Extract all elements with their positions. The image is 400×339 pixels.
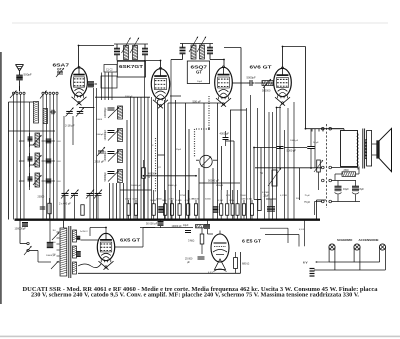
value label 25&#956;F xyxy=(264,195,270,198)
connector terminal pair xyxy=(322,179,332,182)
value label 0,1 M&#937; xyxy=(280,195,287,197)
svg-text:75 pF: 75 pF xyxy=(305,195,311,197)
svg-text:0,1M: 0,1M xyxy=(133,199,138,201)
wire shielded lead oscillator (dotted) xyxy=(155,138,157,192)
wire xyxy=(167,103,169,220)
caption line 2 xyxy=(31,293,360,299)
value label 160 xyxy=(52,242,55,244)
value label 8&#956;F xyxy=(360,188,365,191)
wire V4 plate to output transformer xyxy=(283,47,345,129)
wire V3 grid-cap loop xyxy=(224,48,241,220)
svg-text:10000: 10000 xyxy=(240,195,247,197)
wire xyxy=(104,73,106,101)
value label &#937; xyxy=(148,176,150,179)
capacitor 50000pF below bus xyxy=(185,231,191,233)
coil with trimmer 1000pF group xyxy=(28,133,42,147)
wire V1 plate to MF1 xyxy=(79,45,115,47)
wire bundle xyxy=(151,97,153,220)
value label 300 xyxy=(296,198,300,200)
value label TA xyxy=(260,171,263,175)
padder capacitor+coil 50000pF xyxy=(104,170,123,183)
wire xyxy=(299,168,301,200)
wire xyxy=(203,103,205,220)
wire xyxy=(164,100,166,220)
value label 2-18 xyxy=(57,181,62,183)
wire OT bottom to terminals xyxy=(332,168,359,170)
svg-text:2-18 pF: 2-18 pF xyxy=(65,124,75,128)
pilot lamp 2 xyxy=(354,244,360,270)
potentiometer sensitivity xyxy=(314,160,323,190)
value label 500000 xyxy=(262,90,271,93)
capacitor 10uF below bus xyxy=(158,220,164,228)
wire bus right drop xyxy=(317,200,327,220)
resistor 0,5M xyxy=(242,200,245,220)
value label 1 M&#937; xyxy=(247,199,252,201)
value label 75 pF xyxy=(305,195,311,197)
value label 680 &#937; xyxy=(242,262,249,266)
value label 100000pF xyxy=(15,228,27,231)
wire bundle xyxy=(272,112,274,220)
terminal blobs T1 secondary xyxy=(76,236,81,256)
value label 5000 pF xyxy=(287,149,297,153)
trimmer capacitor 2-18pF a xyxy=(66,108,74,117)
wire xyxy=(112,183,114,220)
tube V5 label 6X5 GT xyxy=(120,238,140,243)
wire lamp return bus xyxy=(314,269,385,271)
value label 1 M&#937; xyxy=(169,199,175,201)
wire bundle xyxy=(140,97,142,220)
wire xyxy=(63,116,65,220)
wire xyxy=(79,107,95,109)
value label 175&#937; xyxy=(180,195,185,197)
svg-text:2x350 V: 2x350 V xyxy=(80,231,88,233)
wire lamp bus 6V xyxy=(316,261,380,263)
svg-text:10μF: 10μF xyxy=(197,81,203,83)
value label 1000 xyxy=(19,159,25,163)
value label 6,3 V xyxy=(208,272,213,274)
wire xyxy=(116,183,118,220)
wire terminal row 201 xyxy=(332,201,361,203)
component box below xyxy=(101,76,117,88)
value label 4,5 &#937; xyxy=(299,229,304,231)
wire xyxy=(198,168,200,220)
coil L2 antenna xyxy=(43,109,47,124)
wire xyxy=(322,129,324,132)
value label 0,5M xyxy=(185,200,190,202)
wire left rail xyxy=(8,102,10,220)
wire xyxy=(30,164,36,166)
value label 5000&#956;F xyxy=(216,185,224,187)
capacitor 5000pF tone xyxy=(276,106,284,170)
value label 110 xyxy=(52,230,55,232)
value label 20000 xyxy=(38,196,45,199)
wire xyxy=(175,100,177,220)
tube V3 6SQ7GT xyxy=(215,67,233,106)
pilot lamp 1 xyxy=(329,244,335,270)
switch S2 wave-change xyxy=(40,91,58,220)
svg-text:100000pF: 100000pF xyxy=(104,107,107,118)
svg-text:3 MΩ: 3 MΩ xyxy=(188,239,194,243)
wire shielded volume link (dotted) xyxy=(195,96,210,157)
value label 10000 xyxy=(96,119,103,121)
wire xyxy=(170,60,172,98)
wire xyxy=(140,227,193,229)
connector terminal pair xyxy=(322,127,332,130)
svg-text:20000: 20000 xyxy=(125,199,132,201)
power transformer T1 xyxy=(57,226,77,278)
resistor 1 M&#937; xyxy=(170,200,173,220)
potentiometer tone control xyxy=(268,168,281,186)
value label 2x350 V xyxy=(80,231,88,233)
wire xyxy=(255,167,322,169)
wire bundle xyxy=(264,87,266,220)
wire xyxy=(119,183,121,220)
svg-text:100000pF: 100000pF xyxy=(104,150,107,161)
tuning gang capacitor 2x440pF section a xyxy=(61,190,79,220)
capacitor 5000pF coupling xyxy=(248,80,255,86)
value label 10000 pF xyxy=(172,225,183,228)
svg-text:175Ω: 175Ω xyxy=(180,195,185,197)
wire xyxy=(146,175,196,177)
value label C2 xyxy=(158,167,162,169)
value label 50000 pF xyxy=(208,179,219,183)
svg-text:C1 C2: C1 C2 xyxy=(106,69,113,71)
svg-text:25μF: 25μF xyxy=(176,149,182,151)
capacitor 25000pF magic eye xyxy=(198,257,205,259)
wire xyxy=(9,130,56,132)
wire V4 cathode xyxy=(276,108,278,220)
svg-text:680 Ω: 680 Ω xyxy=(242,262,249,266)
svg-text:50000: 50000 xyxy=(156,199,163,201)
svg-text:1 MΩ: 1 MΩ xyxy=(169,199,175,201)
value label 50000 xyxy=(156,199,163,201)
value label 2-18 xyxy=(57,161,62,163)
capacitor 4000pF xyxy=(223,131,229,146)
svg-text:100000pF: 100000pF xyxy=(104,129,107,140)
value label 0,25 xyxy=(226,195,231,197)
svg-text:10000 pF: 10000 pF xyxy=(168,185,178,187)
svg-text:10μF: 10μF xyxy=(183,224,189,227)
value label 3000pF xyxy=(125,96,133,98)
tube V1 label 6SA7 xyxy=(53,63,70,72)
svg-text:TA: TA xyxy=(260,171,263,175)
wire bundle xyxy=(144,60,146,220)
capacitor input coupling xyxy=(50,110,56,115)
value label 500 pF xyxy=(193,100,202,104)
wire xyxy=(188,129,190,220)
value label 1M&#937; xyxy=(162,200,167,202)
svg-text:8μF: 8μF xyxy=(360,188,365,191)
wire T1 primary to bus xyxy=(63,220,65,228)
value label 50000 xyxy=(205,199,212,201)
value label 20000 xyxy=(125,199,132,201)
wire T1 mains xyxy=(49,220,51,242)
svg-text:6 E5 GT: 6 E5 GT xyxy=(242,239,261,244)
svg-text:2 x 440 pF: 2 x 440 pF xyxy=(59,203,71,206)
wire V3 plate riser xyxy=(223,60,225,68)
wire xyxy=(9,101,34,103)
value label 500pF xyxy=(24,73,32,77)
wire bundle xyxy=(246,108,248,220)
tube V5 6X5GT rectifier xyxy=(97,233,114,269)
capacitor 100000pF mains xyxy=(22,223,28,227)
value label 10000 pF xyxy=(168,185,178,187)
svg-text:3000pF: 3000pF xyxy=(125,96,133,98)
wire xyxy=(254,147,276,149)
capacitor electrolytic 8uF xyxy=(352,181,359,202)
resistor cathode bias xyxy=(258,200,261,211)
svg-text:Ω: Ω xyxy=(148,176,150,179)
capacitor AVC xyxy=(40,207,46,209)
wire xyxy=(123,183,125,220)
tube top cap terminals xyxy=(78,66,284,69)
capacitor trimmer padding xyxy=(42,159,56,163)
output transformer T2 xyxy=(341,129,372,169)
potentiometer volume 1 Mohm xyxy=(200,155,212,167)
capacitor mica row a xyxy=(158,207,164,212)
trimmer capacitor 2-18pF b xyxy=(76,108,84,117)
capacitor 500pF antenna xyxy=(16,75,23,91)
value label 2 x 440 pF xyxy=(59,203,71,206)
svg-text:50000pF: 50000pF xyxy=(104,172,107,182)
wire xyxy=(277,107,282,109)
svg-text:6SK7GT: 6SK7GT xyxy=(119,64,144,69)
svg-text:1000μF: 1000μF xyxy=(96,134,104,136)
value label 2-18 xyxy=(57,141,62,143)
tube V2 label 6SK7GT xyxy=(119,64,144,69)
svg-text:1000 pF: 1000 pF xyxy=(290,140,299,142)
svg-text:5000μF: 5000μF xyxy=(216,185,224,187)
component box C1 xyxy=(104,65,117,73)
value label 1000 xyxy=(19,179,25,183)
wire V2 plate riser xyxy=(160,61,162,69)
connector terminal pair xyxy=(322,200,332,203)
wire xyxy=(226,140,234,142)
svg-text:0,3M: 0,3M xyxy=(229,200,234,202)
svg-text:5000pF: 5000pF xyxy=(247,76,256,80)
capacitor 10000pF eye grid xyxy=(204,225,210,229)
ground battery symbol xyxy=(310,269,315,277)
IF transformer MF1 xyxy=(114,38,161,61)
IF can shield box MF1 xyxy=(117,61,145,77)
value label 5000pF xyxy=(247,76,256,80)
wire xyxy=(260,148,262,200)
svg-text:10000 pF: 10000 pF xyxy=(46,255,56,257)
svg-text:GT: GT xyxy=(196,69,202,74)
pilot lamp 3 xyxy=(379,244,385,270)
resistor 680 ohm xyxy=(234,252,238,273)
wire xyxy=(157,100,159,220)
wire xyxy=(158,154,165,156)
label 6 V xyxy=(303,261,308,265)
antenna xyxy=(16,65,24,76)
value label 0,1M xyxy=(218,200,223,202)
wire xyxy=(318,129,320,132)
wire xyxy=(217,103,219,220)
wire below-bus links xyxy=(260,220,305,247)
value label 50000 xyxy=(150,200,157,202)
resistor 0,1M xyxy=(134,200,137,220)
trimmer capacitor 2-18pF c xyxy=(97,147,105,156)
value label 220 xyxy=(52,254,55,256)
wire xyxy=(185,103,187,220)
resistor 80k xyxy=(81,205,84,216)
IF can shield box MF2 xyxy=(187,61,209,84)
svg-text:0,5M: 0,5M xyxy=(241,199,246,201)
wire xyxy=(101,73,103,101)
value label &#956;F xyxy=(187,261,190,264)
svg-text:0,1 MΩ: 0,1 MΩ xyxy=(280,195,287,197)
wire xyxy=(120,189,152,191)
wire bundle xyxy=(287,108,289,220)
magic eye target display xyxy=(214,259,227,272)
wire xyxy=(168,102,224,104)
svg-text:0,1M: 0,1M xyxy=(218,200,223,202)
tube V3 label 6SQ7 GT xyxy=(191,65,208,75)
svg-text:0,1M: 0,1M xyxy=(189,199,194,201)
wire xyxy=(255,82,273,84)
resistor 400000 ohm xyxy=(142,160,146,220)
wire V1 plate riser xyxy=(78,46,80,69)
wire xyxy=(30,144,36,146)
svg-text:5 MΩ: 5 MΩ xyxy=(176,200,182,202)
svg-text:ACCENSIONE: ACCENSIONE xyxy=(359,238,379,242)
svg-text:160: 160 xyxy=(52,242,55,244)
wire bundle xyxy=(268,112,270,220)
svg-text:5000 pF: 5000 pF xyxy=(287,149,297,153)
resistor 0,1M xyxy=(220,190,223,220)
wire xyxy=(254,199,261,201)
caption line 1 xyxy=(23,287,378,293)
value label 2-18 pF xyxy=(65,124,75,128)
capacitor mains filter xyxy=(47,242,54,247)
coil L1 antenna 500/1500 xyxy=(34,102,39,124)
value label 400000 xyxy=(148,173,157,176)
wire xyxy=(311,129,313,132)
tube V4 label 6V6 GT xyxy=(250,65,272,70)
wire xyxy=(170,97,172,220)
wire V5 cathode to filter xyxy=(115,228,156,248)
svg-text:1000: 1000 xyxy=(19,179,25,183)
coil with trimmer 1000pF group xyxy=(28,173,42,187)
svg-text:10 μF: 10 μF xyxy=(313,142,319,144)
resistor divider xyxy=(250,200,253,220)
wire xyxy=(29,102,31,190)
wire bundle xyxy=(147,97,149,220)
value label C xyxy=(152,145,154,147)
wire speaker feed top xyxy=(332,129,345,131)
value label 2500 xyxy=(344,170,350,172)
svg-text:10000: 10000 xyxy=(96,119,103,121)
capacitor electrolytic 25uF cathode xyxy=(266,199,276,211)
value label 50 000 pF xyxy=(146,223,158,226)
resistor 0,3M xyxy=(231,190,234,220)
wire xyxy=(95,83,98,85)
potentiometer hum xyxy=(196,225,204,228)
wire xyxy=(72,116,74,145)
svg-text:230 V, schermo 240 V, catodo 9: 230 V, schermo 240 V, catodo 9,5 V. Conv… xyxy=(31,293,360,299)
value label 0,1M xyxy=(189,199,194,201)
padder capacitor+coil 100000pF xyxy=(104,150,123,163)
chassis ground bus xyxy=(15,219,321,221)
value label 75 pF xyxy=(304,201,311,204)
svg-text:500pF: 500pF xyxy=(24,73,32,77)
wire xyxy=(126,120,128,220)
wire xyxy=(232,82,248,84)
value label 16&#956;F xyxy=(343,188,349,191)
wire screen B+ riser xyxy=(293,102,295,220)
tube V1 6SA7 xyxy=(71,68,88,106)
capacitor trimmer padding xyxy=(42,139,56,143)
capacitor electrolytic 16uF xyxy=(335,181,342,202)
wire xyxy=(199,182,240,184)
speaker connector dashed separation xyxy=(326,124,328,208)
value label 1000 xyxy=(19,139,25,143)
resistor 0,5M xyxy=(187,190,190,220)
wire xyxy=(212,168,214,220)
trimmer capacitor V1 grid xyxy=(56,68,64,77)
svg-text:6,3 V: 6,3 V xyxy=(208,272,213,274)
value label 0,3M xyxy=(229,200,234,202)
svg-text:1000: 1000 xyxy=(19,159,25,163)
wire xyxy=(96,88,98,220)
tube V6 6E5 magic eye xyxy=(211,234,229,262)
switch voltage selector xyxy=(38,233,59,270)
connector terminal pair xyxy=(322,166,332,169)
wire terminal row 180 xyxy=(332,180,357,182)
resistor 20000 xyxy=(127,200,130,220)
svg-text:SCHERMO: SCHERMO xyxy=(337,238,353,242)
tuning gang capacitor section b xyxy=(86,190,102,220)
value label 10000 xyxy=(240,195,247,197)
tube V2 6SK7GT xyxy=(151,69,169,109)
value label 1000 pF xyxy=(290,140,299,142)
wire bundle xyxy=(257,108,259,220)
field coil 250 ohm xyxy=(335,167,359,181)
wire xyxy=(253,148,255,200)
svg-text:500000: 500000 xyxy=(262,90,271,93)
wire eye grid xyxy=(208,220,221,234)
svg-text:1 MΩ: 1 MΩ xyxy=(247,199,252,201)
wire bundle xyxy=(130,97,132,220)
switch S1 wave-change xyxy=(10,86,25,220)
value label 4000 pF xyxy=(220,132,230,136)
svg-text:6X5 GT: 6X5 GT xyxy=(120,238,140,243)
svg-text:1000: 1000 xyxy=(19,139,25,143)
wire T1 to V5 plate xyxy=(81,228,107,241)
svg-text:16μF: 16μF xyxy=(343,188,349,191)
svg-text:0,5 MΩ: 0,5 MΩ xyxy=(262,192,269,194)
svg-text:2500: 2500 xyxy=(344,170,350,172)
svg-text:25μF: 25μF xyxy=(264,195,270,198)
wire speaker side xyxy=(314,129,316,168)
potentiometer 500000 ohm grid xyxy=(262,79,273,88)
resistor 50000 xyxy=(194,200,197,220)
value label 25&#956;F xyxy=(176,149,182,151)
value label 5 M&#937; xyxy=(176,200,182,202)
coil with trimmer 1000pF group xyxy=(28,153,42,167)
value label 10&#956;F xyxy=(183,224,189,227)
svg-text:6 V: 6 V xyxy=(303,261,308,265)
value label 1000&#956;F xyxy=(96,134,104,136)
value label 10000 pF xyxy=(46,255,56,257)
resistor 50000 xyxy=(152,190,155,220)
label SCHERMO xyxy=(337,238,353,242)
value label 100000 pF xyxy=(131,185,142,187)
wire bundle xyxy=(137,97,139,220)
value label 0,5 M&#937; xyxy=(262,192,269,194)
wire xyxy=(196,159,199,161)
